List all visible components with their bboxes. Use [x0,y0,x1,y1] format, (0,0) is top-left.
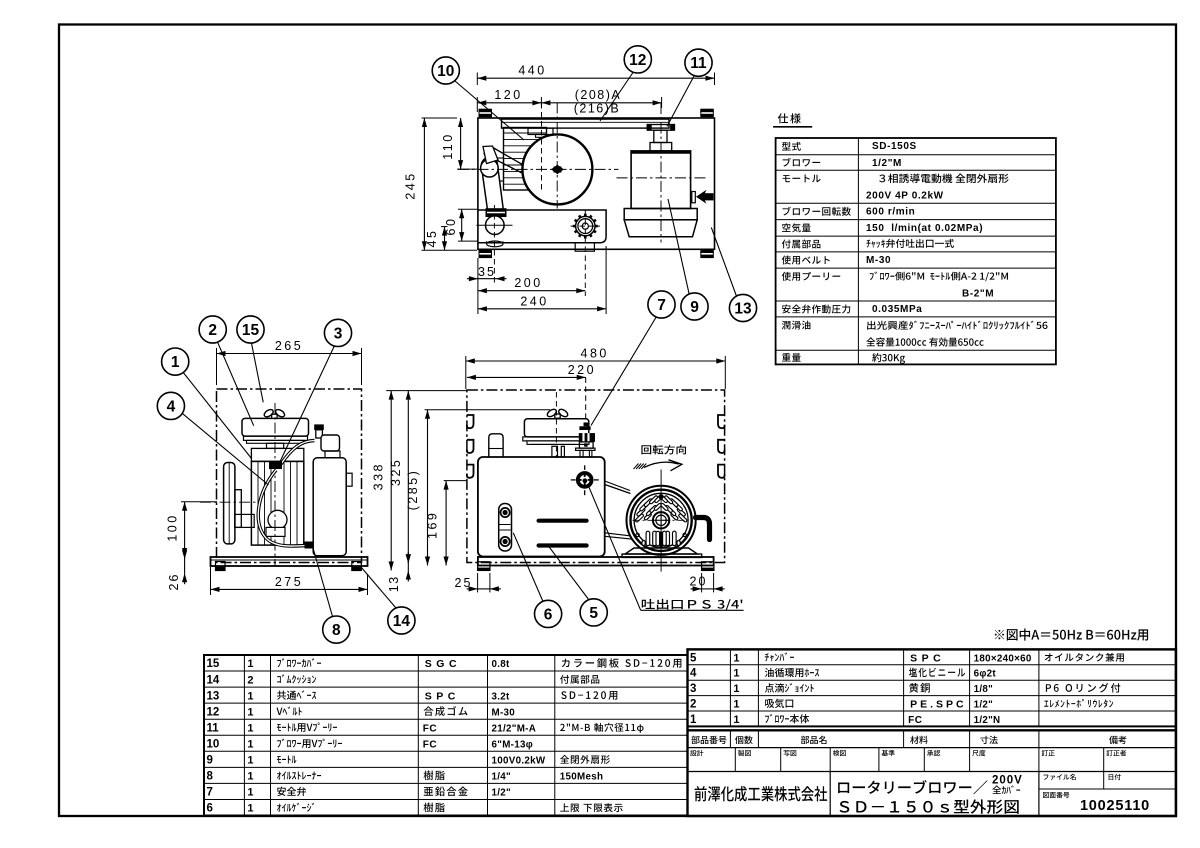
svg-text:200V: 200V [992,775,1023,787]
spec row ブロワー回転数 [783,207,791,216]
spec row 重量 [782,353,791,362]
svg-text:150 l/min(at 0.02MPa): 150 l/min(at 0.02MPa) [866,223,983,234]
dim 200 top view [478,290,585,292]
spec row 使用プーリー [782,272,791,281]
dim (208)A (216)B top view [541,102,661,104]
discharge port label leader [588,486,640,611]
svg-text:7: 7 [207,787,213,799]
svg-text:PE.SPC: PE.SPC [910,699,967,711]
svg-text:1: 1 [247,706,253,718]
svg-text:SGC: SGC [425,658,461,670]
top view belt tensioner arm / oil strainer pipe [481,157,503,218]
dim 480 front view [465,356,467,389]
svg-text:13: 13 [734,300,752,317]
side view wing nut [263,408,275,418]
front view motor centerlines [660,470,662,572]
top view belt lines [492,147,528,168]
svg-text:4: 4 [167,398,176,415]
svg-text:FC: FC [423,740,437,751]
svg-text:1/2": 1/2" [492,788,511,799]
front view motor fan cover (9) [627,486,696,555]
dim 35 top view [477,258,479,284]
spec table grid [776,138,1056,364]
front view safety valve (7) [579,426,590,430]
front view oil fill cap [489,434,503,457]
dim 240 top view [605,246,607,314]
front view base plate (13) [478,557,714,566]
svg-text:(216)B: (216)B [574,102,621,116]
svg-text:12: 12 [629,52,646,69]
front view motor cable [696,518,710,540]
front view rubber feet with 25/20 dims [478,562,490,571]
side view cover chain-line box (15) [217,389,362,563]
top view centerlines [556,103,558,209]
svg-text:35: 35 [478,265,496,279]
svg-text:1: 1 [690,714,697,726]
spec table heading [778,113,788,123]
svg-text:1: 1 [247,690,253,702]
spec row 型式 [782,142,791,150]
top view pulley hub diamond [551,165,564,175]
side view oil drip joint (3) black fitting [269,462,282,470]
spec row ブロワー [783,158,791,167]
top view chamber drain tab [575,243,594,252]
left parts list table [204,655,688,816]
svg-text:5: 5 [690,652,697,664]
spec row 潤滑油 [782,321,791,330]
svg-text:45: 45 [425,229,439,248]
front view oil level gauge (6) [499,504,512,552]
callout 14 foot leader [361,567,396,608]
dim 45 top view [441,226,448,228]
dim 13 front view [407,563,409,570]
top view motor base trapezoid [624,220,697,237]
svg-text:6φ2t: 6φ2t [974,669,997,680]
front view intake centerline [555,392,557,458]
svg-text:2: 2 [208,322,217,339]
svg-text:1: 1 [733,668,739,680]
spec row 安全弁作動圧力 [782,304,791,313]
svg-text:SPC: SPC [910,652,945,664]
svg-text:11: 11 [690,55,707,72]
drawing title cell [838,783,849,794]
callout 7 safety valve leader [591,316,657,425]
right parts list table [688,649,1176,726]
top view chamber / oil tank (5) [478,210,606,243]
svg-text:1: 1 [733,714,739,726]
svg-text:220: 220 [568,363,596,377]
rotation direction text [641,445,651,454]
dim 440 top view [476,73,478,86]
callout 1 blower body leader [181,369,252,459]
svg-text:6: 6 [544,606,553,623]
side view base plate (13) [211,557,368,566]
title block [688,649,1176,816]
file/date/number cells [1039,788,1176,790]
svg-text:245: 245 [404,171,418,199]
svg-text:1: 1 [247,771,253,783]
spec row 空気量 [782,223,790,232]
front view cover clips [467,415,474,428]
svg-text:1: 1 [247,722,253,734]
callout 8 strainer leader [313,547,333,617]
approval row labels [690,750,696,756]
callout 3 drip joint leader [277,346,334,468]
svg-text:1: 1 [247,803,253,815]
svg-text:200V 4P 0.2kW: 200V 4P 0.2kW [866,191,944,202]
svg-text:9: 9 [690,299,699,316]
svg-text:FC: FC [423,723,437,734]
svg-text:SD-150S: SD-150S [872,141,917,152]
top view motor (9) body [631,151,691,209]
front view motor hub [653,512,669,528]
side view blower casing (1) [251,448,303,461]
svg-text:12: 12 [207,706,220,718]
top view intake arrow (2) [692,192,696,203]
svg-text:10: 10 [207,739,220,751]
svg-text:1: 1 [733,683,739,695]
front view left dimension stack [386,390,467,392]
svg-text:600 r/min: 600 r/min [866,207,915,218]
svg-text:3.2t: 3.2t [492,691,511,702]
svg-text:1/2"N: 1/2"N [974,715,1001,726]
svg-text:275: 275 [275,575,303,589]
callout 11 motor pulley [667,76,694,126]
svg-text:1/8": 1/8" [974,684,993,695]
note 50Hz 60Hz [995,630,1004,639]
front view tank slots [537,519,588,522]
svg-text:1: 1 [247,658,253,670]
svg-text:(285): (285) [406,469,420,511]
dim 26 side view [184,548,186,559]
front view wing nut [546,408,558,418]
svg-text:180×240×60: 180×240×60 [974,653,1032,664]
callout 2 intake leader [217,342,253,426]
dim 245 top view [422,117,458,119]
svg-text:1: 1 [733,699,739,711]
dim 275 side view [210,567,212,595]
svg-text:1: 1 [171,354,180,371]
svg-text:14: 14 [393,613,411,630]
front view motor base [625,548,698,554]
side view intake muffler (2) [242,418,309,436]
svg-text:14: 14 [207,674,220,686]
svg-text:0.8t: 0.8t [492,659,511,670]
svg-text:338: 338 [372,462,386,490]
callout 4 hose leader [181,412,269,485]
svg-text:1: 1 [733,652,739,664]
svg-text:200: 200 [514,276,542,290]
side view vertical centerline [274,403,276,566]
svg-text:10025110: 10025110 [1080,798,1150,814]
svg-text:2: 2 [690,699,696,711]
svg-text:265: 265 [275,339,303,353]
top view motor shaft and pulley (11) [647,125,674,131]
svg-text:8: 8 [332,622,341,639]
callout 6 oil gauge leader [513,533,543,602]
svg-text:7: 7 [657,297,666,314]
front view cover chain-line box (15) [467,390,725,563]
side view shaft centerline [200,501,259,503]
svg-text:M-30: M-30 [866,255,891,266]
dim 220 front view [585,377,587,425]
svg-text:10: 10 [437,63,454,80]
front view pressure gauge / discharge port [578,473,592,487]
callout 13 common base leader [711,227,737,297]
svg-text:15: 15 [207,658,220,670]
top view blower body with cooling fins [504,128,547,191]
front view belt upper [605,481,630,491]
callout 5 chamber leader [548,546,589,600]
callout 15 cover leader [252,343,264,402]
svg-text:169: 169 [426,511,440,539]
svg-text:1: 1 [247,787,253,799]
dim 265 side view [216,348,218,385]
side view lower hose fitting (8) [305,542,313,549]
spec row 付属部品 [782,240,791,249]
svg-text:100V0.2kW: 100V0.2kW [492,756,546,767]
side view hose elbow [316,430,323,438]
svg-text:1/2": 1/2" [974,700,993,711]
svg-text:25: 25 [455,576,473,590]
svg-text:240: 240 [520,294,548,308]
svg-text:0.035MPa: 0.035MPa [872,304,922,315]
svg-text:FC: FC [908,715,922,726]
svg-text:480: 480 [581,347,609,361]
side view oil tank chamber (5) [313,458,346,556]
svg-text:21/2"M-A: 21/2"M-A [492,723,537,734]
top view blower pulley circle (10) [522,134,592,204]
svg-text:1/4": 1/4" [492,772,511,783]
top view motor flange [624,209,697,220]
svg-text:26: 26 [167,573,181,591]
side view rubber feet (14) [216,562,226,571]
top view oil strainer circle (8) [486,216,505,235]
svg-text:6"M-13φ: 6"M-13φ [492,740,534,751]
top view safety valve (7) gear circle [576,216,595,235]
top view cover bracket left [528,128,553,134]
front view tank chamber body (5) [478,457,605,557]
svg-text:20: 20 [690,575,708,589]
top view base plate (13) [478,118,715,249]
svg-text:1: 1 [247,755,253,767]
svg-text:9: 9 [207,755,213,767]
svg-text:3: 3 [690,683,696,695]
svg-text:2: 2 [247,674,253,686]
svg-text:1: 1 [247,739,253,751]
spec row 使用ベルト [782,255,791,264]
svg-text:6: 6 [207,803,213,815]
svg-text:4: 4 [690,668,697,680]
svg-text:325: 325 [389,458,403,486]
dim 60 top view [458,208,478,210]
svg-text:1/2"M: 1/2"M [872,158,902,169]
top view oil drip joint (black band) [486,208,507,217]
top view belt cover plate [502,119,670,128]
dim 100 side view [181,501,217,503]
svg-text:150Mesh: 150Mesh [560,772,604,783]
spec row モートル [783,175,791,182]
svg-text:5: 5 [589,605,598,622]
callout 9 motor leader [668,199,689,295]
top view rubber feet (14) [479,109,493,118]
svg-text:11: 11 [207,722,220,734]
svg-text:100: 100 [166,513,180,541]
svg-text:13: 13 [387,575,401,592]
svg-text:15: 15 [242,322,260,339]
svg-text:440: 440 [518,64,546,78]
svg-text:120: 120 [494,88,522,102]
company name cell [829,772,831,817]
svg-text:B-2"M: B-2"M [962,289,994,300]
side view oil hose (4) lower [258,470,305,546]
side view oil hose (4) upper [281,441,315,465]
svg-text:3: 3 [334,325,343,342]
callout 10 blower pulley [455,81,524,140]
svg-text:M-30: M-30 [492,707,516,718]
svg-text:SPC: SPC [425,690,460,702]
dim 120 top view [476,97,478,112]
svg-text:13: 13 [207,690,220,702]
side view pulley disc (10) [224,463,235,544]
svg-text:8: 8 [207,771,214,783]
svg-text:110: 110 [441,132,455,159]
callout 12 V belt [600,73,633,122]
header labels [691,736,699,744]
front view belt lower [605,533,634,537]
rotation direction arrow [644,462,679,467]
dim 110 top view [457,168,477,170]
front view intake muffler (2) [524,419,588,437]
